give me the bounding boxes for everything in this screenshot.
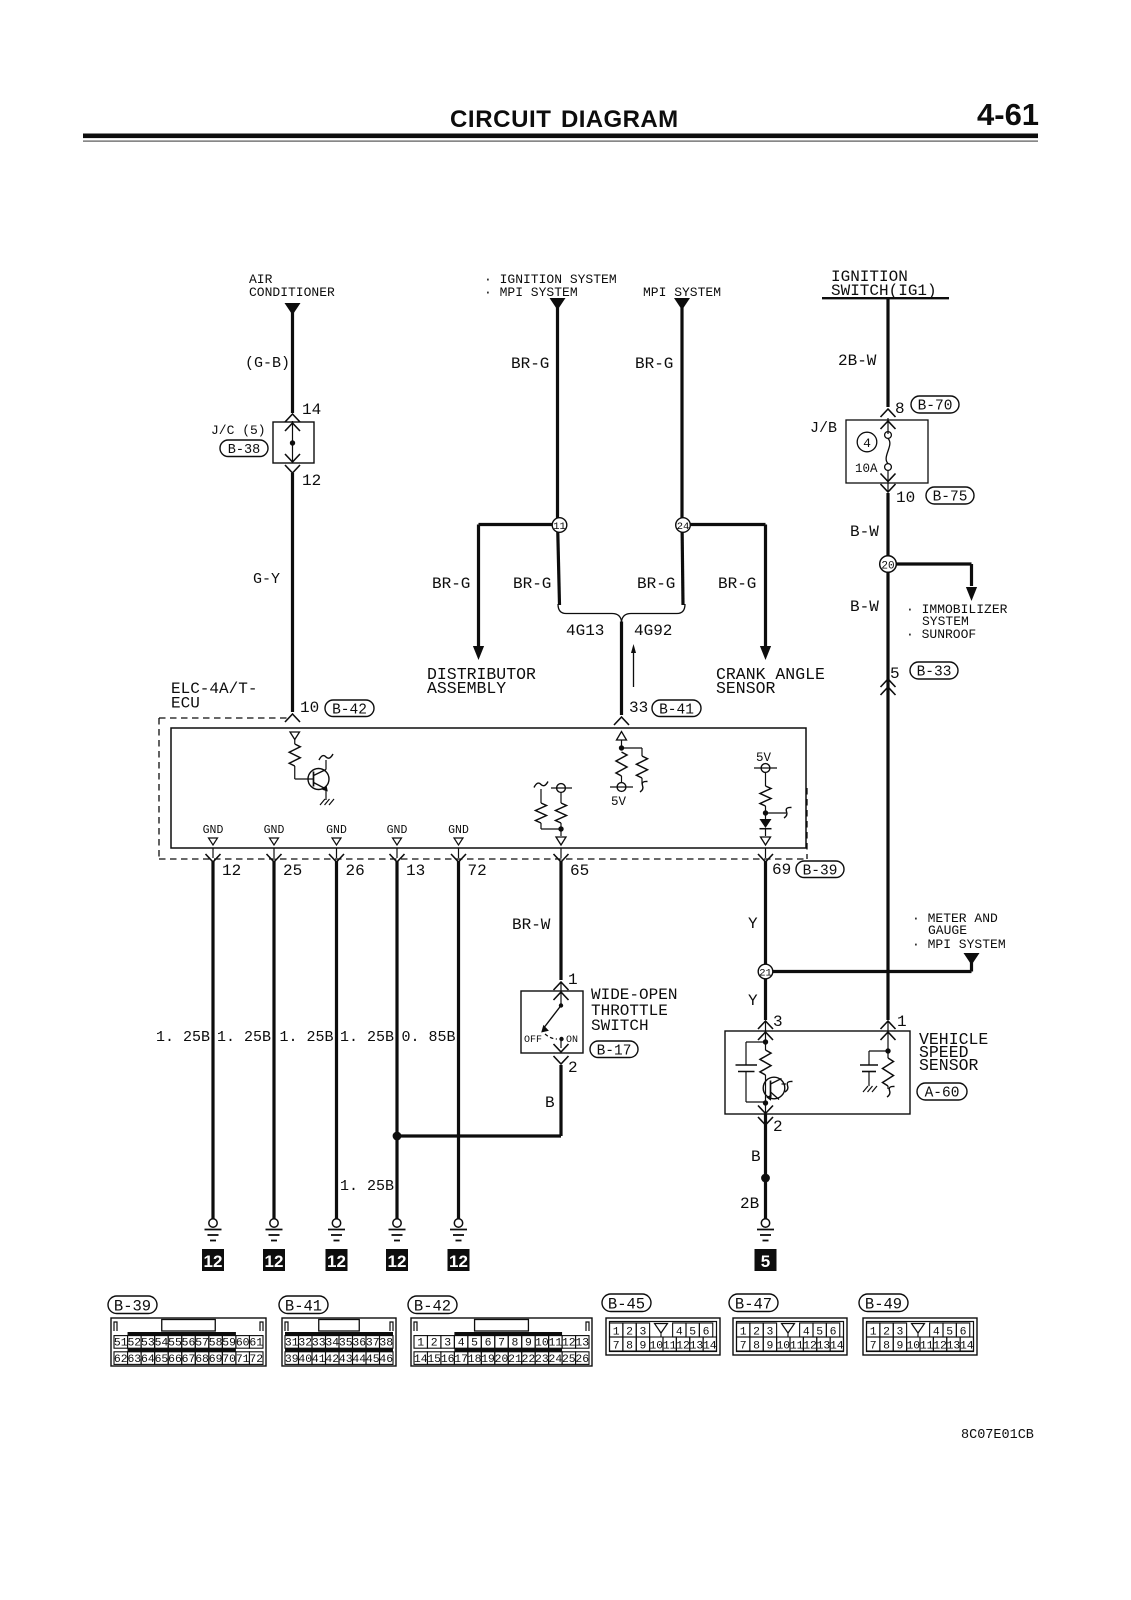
svg-text:65: 65: [155, 1354, 169, 1366]
connector B-47 pinout: [729, 1294, 778, 1312]
connector B-42 pinout: [408, 1296, 457, 1314]
svg-text:10: 10: [535, 1338, 549, 1350]
svg-text:39: 39: [285, 1354, 299, 1366]
svg-text:B: B: [751, 1148, 761, 1166]
svg-text:45: 45: [366, 1354, 380, 1366]
svg-text:26: 26: [575, 1354, 589, 1366]
VSS pin1 entry: [887, 1021, 889, 1051]
svg-text:CIRCUIT: CIRCUIT: [450, 106, 552, 133]
svg-text:BR-G: BR-G: [635, 355, 673, 373]
svg-text:7: 7: [613, 1341, 620, 1353]
svg-text:22: 22: [522, 1354, 536, 1366]
svg-text:69: 69: [772, 861, 791, 879]
svg-text:21: 21: [508, 1354, 522, 1366]
wire G-Y to ECU pin 10: [291, 473, 294, 712]
svg-text:3: 3: [773, 1013, 783, 1031]
svg-text:1. 25B: 1. 25B: [340, 1178, 394, 1195]
svg-text:40: 40: [298, 1354, 312, 1366]
svg-text:60: 60: [236, 1338, 250, 1350]
svg-text:2: 2: [568, 1059, 578, 1077]
svg-text:4G92: 4G92: [634, 622, 672, 640]
pin 2 of vehicle speed sensor: [758, 1117, 773, 1125]
svg-text:B-41: B-41: [659, 702, 694, 718]
resistor R1: [289, 744, 300, 766]
svg-text:3: 3: [444, 1338, 451, 1350]
svg-text:1: 1: [417, 1338, 424, 1350]
svg-text:11: 11: [663, 1341, 677, 1353]
svg-text:6: 6: [485, 1338, 492, 1350]
ground point 12: [448, 1249, 470, 1271]
svg-text:12: 12: [327, 1252, 346, 1271]
svg-text:BR-W: BR-W: [512, 916, 551, 934]
svg-text:44: 44: [352, 1354, 366, 1366]
svg-text:12: 12: [803, 1341, 817, 1353]
svg-text:B-42: B-42: [414, 1297, 451, 1315]
wire 1.25B from pin 25 to ground: [272, 861, 275, 1219]
svg-text:GND: GND: [387, 824, 408, 837]
resistor R3: [637, 756, 648, 778]
svg-text:B-W: B-W: [850, 598, 879, 616]
svg-text:2B-W: 2B-W: [838, 352, 877, 370]
svg-text:10: 10: [649, 1341, 663, 1353]
svg-text:21: 21: [759, 968, 772, 980]
svg-text:8: 8: [626, 1341, 633, 1353]
svg-text:72: 72: [468, 862, 487, 880]
svg-text:B-39: B-39: [114, 1297, 151, 1315]
svg-text:13: 13: [817, 1341, 831, 1353]
svg-text:5V: 5V: [611, 795, 627, 809]
svg-text:A-60: A-60: [925, 1086, 960, 1102]
fuse 4 10A: [887, 418, 889, 434]
svg-text:71: 71: [236, 1354, 250, 1366]
wire BR-W from pin 65: [559, 861, 562, 980]
svg-text:· MPI SYSTEM: · MPI SYSTEM: [912, 937, 1006, 952]
svg-text:G-Y: G-Y: [253, 571, 280, 588]
node VSS-3: [763, 1039, 768, 1044]
ECU output terminal pin 69: [761, 837, 771, 845]
svg-text:53: 53: [141, 1338, 155, 1350]
svg-text:1. 25B: 1. 25B: [340, 1029, 394, 1046]
direction arrow: [633, 651, 635, 687]
pin 12 out of J/C(5): [285, 454, 300, 462]
svg-text:BR-G: BR-G: [511, 355, 549, 373]
node pin69: [763, 810, 768, 815]
ECU pin 25: [273, 848, 275, 858]
ECU input terminal pin 10: [290, 732, 300, 740]
svg-text:35: 35: [339, 1338, 353, 1350]
VSS pin2 exit: [765, 1103, 767, 1113]
junction node 2B: [761, 1174, 770, 1183]
svg-text:19: 19: [481, 1354, 495, 1366]
wire BR-G from ignition system: [556, 298, 559, 520]
connector B-39 pinout: [108, 1296, 157, 1314]
svg-text:OFF: OFF: [524, 1035, 542, 1046]
wire BR-G from MPI system: [680, 298, 683, 520]
svg-text:13: 13: [690, 1341, 704, 1353]
svg-text:BR-G: BR-G: [637, 575, 675, 593]
svg-text:58: 58: [209, 1338, 223, 1350]
svg-text:0. 85B: 0. 85B: [402, 1029, 456, 1046]
svg-text:69: 69: [209, 1354, 223, 1366]
svg-text:9: 9: [525, 1338, 532, 1350]
connector B-49 pinout: [859, 1294, 908, 1312]
svg-text:10A: 10A: [855, 462, 878, 476]
svg-text:B: B: [545, 1094, 555, 1112]
svg-text:4-61: 4-61: [977, 97, 1039, 132]
svg-text:8C07E01CB: 8C07E01CB: [961, 1428, 1034, 1443]
svg-text:14: 14: [830, 1341, 844, 1353]
svg-text:24: 24: [549, 1354, 563, 1366]
svg-text:5V: 5V: [756, 751, 772, 765]
wire to ECU pin 33: [620, 622, 623, 716]
svg-text:8: 8: [753, 1341, 760, 1353]
svg-text:B-33: B-33: [917, 665, 952, 681]
svg-text:15: 15: [427, 1354, 441, 1366]
ECU input terminal pin 33: [617, 732, 627, 741]
svg-text:42: 42: [325, 1354, 339, 1366]
wire 0.85B from pin 72 to ground: [457, 861, 460, 1219]
svg-text:· MPI SYSTEM: · MPI SYSTEM: [484, 285, 578, 300]
junction block J/B: [846, 420, 928, 483]
node VSS-2: [763, 1100, 768, 1105]
svg-text:5: 5: [471, 1338, 478, 1350]
svg-text:13: 13: [947, 1341, 961, 1353]
svg-text:1. 25B: 1. 25B: [280, 1029, 334, 1046]
svg-text:24: 24: [677, 521, 690, 533]
ground 1: [209, 1219, 217, 1227]
svg-text:10: 10: [300, 699, 319, 717]
node in J/C(5): [290, 440, 295, 445]
svg-text:63: 63: [127, 1354, 141, 1366]
ECU pin 12: [212, 848, 214, 858]
svg-text:20: 20: [881, 561, 894, 573]
wire to immobilizer and sunroof: [970, 564, 973, 586]
svg-text:1: 1: [897, 1013, 907, 1031]
svg-text:23: 23: [535, 1354, 549, 1366]
brace 4G13 / 4G92: [558, 604, 685, 622]
svg-text:8: 8: [512, 1338, 519, 1350]
svg-text:MPI SYSTEM: MPI SYSTEM: [643, 285, 721, 300]
pin 2 of throttle switch: [554, 1056, 569, 1064]
ground 4: [393, 1219, 401, 1227]
svg-text:J/B: J/B: [810, 420, 837, 437]
svg-text:10: 10: [896, 489, 915, 507]
ECU box: [171, 728, 806, 848]
pin 1 of throttle switch: [554, 982, 569, 990]
transistor Q2: [763, 1077, 785, 1099]
svg-text:1: 1: [568, 971, 578, 989]
svg-text:ASSEMBLY: ASSEMBLY: [427, 679, 506, 698]
node pin65: [558, 826, 563, 831]
svg-text:12: 12: [676, 1341, 690, 1353]
svg-text:34: 34: [325, 1338, 339, 1350]
svg-text:31: 31: [285, 1338, 299, 1350]
ECU pin 72: [458, 848, 460, 858]
wide-open throttle switch B-17: [521, 991, 583, 1053]
svg-text:62: 62: [114, 1354, 128, 1366]
svg-text:38: 38: [379, 1338, 393, 1350]
svg-text:7: 7: [870, 1341, 877, 1353]
node VSS-1: [885, 1048, 890, 1053]
ground point 12: [263, 1249, 285, 1271]
node 21 branch wire: [970, 953, 973, 972]
svg-text:52: 52: [127, 1338, 141, 1350]
resistor R6: [760, 786, 771, 806]
svg-text:(G-B): (G-B): [245, 355, 290, 372]
svg-text:64: 64: [141, 1354, 155, 1366]
svg-text:4: 4: [863, 436, 871, 451]
svg-text:51: 51: [114, 1338, 128, 1350]
svg-text:B-70: B-70: [918, 399, 953, 415]
ground 5: [454, 1219, 462, 1227]
ECU output terminal pin 65: [556, 837, 566, 845]
svg-text:12: 12: [933, 1341, 947, 1353]
svg-text:CONDITIONER: CONDITIONER: [249, 285, 335, 300]
svg-text:66: 66: [168, 1354, 182, 1366]
header rule: [83, 134, 1038, 139]
svg-text:67: 67: [182, 1354, 196, 1366]
ECU pin 10 connector B-42: [285, 714, 300, 722]
wire (G-B) from air conditioner: [291, 303, 294, 413]
resistor R2: [616, 752, 627, 776]
svg-text:26: 26: [346, 862, 365, 880]
ECU pin 33 connector B-41: [614, 717, 629, 725]
svg-text:14: 14: [414, 1354, 428, 1366]
svg-text:B-41: B-41: [285, 1297, 322, 1315]
connector B-41 pinout: [279, 1296, 328, 1314]
svg-text:B-42: B-42: [332, 702, 367, 718]
svg-text:54: 54: [155, 1338, 169, 1350]
pin 8 connector B-70: [881, 409, 896, 417]
ECU pin 69 connector B-39: [765, 848, 767, 858]
svg-text:B-17: B-17: [597, 1043, 632, 1059]
svg-text:SENSOR: SENSOR: [716, 679, 776, 698]
wire 1.25B from pin 12 to ground: [211, 861, 214, 1219]
ground point 12: [386, 1249, 408, 1271]
svg-text:GND: GND: [264, 824, 285, 837]
svg-text:56: 56: [182, 1338, 196, 1350]
svg-text:59: 59: [222, 1338, 236, 1350]
svg-text:12: 12: [265, 1252, 284, 1271]
svg-text:17: 17: [454, 1354, 468, 1366]
svg-text:57: 57: [195, 1338, 209, 1350]
svg-text:B-75: B-75: [933, 490, 968, 506]
transistor Q1: [308, 769, 329, 790]
svg-text:5: 5: [761, 1252, 770, 1271]
svg-text:SWITCH: SWITCH: [591, 1017, 649, 1035]
svg-text:36: 36: [352, 1338, 366, 1350]
ground of Q1 emitter: [325, 789, 327, 800]
wire 1.25B from pin 26 to ground: [335, 861, 338, 1219]
capacitor C2: [869, 1050, 888, 1052]
svg-text:9: 9: [767, 1341, 774, 1353]
5V terminal of R2: [621, 776, 623, 782]
svg-text:65: 65: [570, 862, 589, 880]
svg-text:1. 25B: 1. 25B: [156, 1029, 210, 1046]
svg-text:4: 4: [458, 1338, 465, 1350]
continuation of R3: [641, 778, 643, 784]
VSS pin3 entry: [765, 1021, 767, 1050]
svg-text:41: 41: [312, 1354, 326, 1366]
svg-text:Y: Y: [748, 915, 758, 933]
svg-text:14: 14: [960, 1341, 974, 1353]
resistor R4: [536, 803, 547, 823]
svg-text:B-47: B-47: [735, 1295, 772, 1313]
svg-text:GND: GND: [203, 824, 224, 837]
svg-text:2: 2: [431, 1338, 438, 1350]
svg-text:B-49: B-49: [865, 1295, 902, 1313]
wire 2B-W from ignition switch: [886, 298, 889, 407]
svg-text:13: 13: [575, 1338, 589, 1350]
svg-text:43: 43: [339, 1354, 353, 1366]
svg-text:B-45: B-45: [608, 1295, 645, 1313]
svg-text:GND: GND: [448, 824, 469, 837]
junction connector J/C(5) B-38: [273, 422, 314, 463]
svg-text:B-39: B-39: [803, 863, 838, 879]
svg-text:12: 12: [222, 862, 241, 880]
wire BR-G to crank angle sensor: [764, 525, 767, 648]
ECU pin 13: [396, 848, 398, 858]
svg-text:33: 33: [629, 699, 648, 717]
svg-text:61: 61: [249, 1338, 263, 1350]
svg-text:BR-G: BR-G: [432, 575, 470, 593]
svg-text:B-W: B-W: [850, 523, 879, 541]
wire B from vehicle speed sensor: [764, 1114, 767, 1219]
svg-text:25: 25: [283, 862, 302, 880]
junction circle 24: [682, 520, 683, 605]
svg-text:12: 12: [302, 472, 321, 490]
svg-text:12: 12: [562, 1338, 576, 1350]
wire B from throttle switch: [559, 1065, 562, 1136]
svg-text:18: 18: [468, 1354, 482, 1366]
wire B-W ignition feed: [886, 493, 889, 1020]
svg-text:7: 7: [740, 1341, 747, 1353]
svg-text:14: 14: [302, 401, 321, 419]
ground 3: [332, 1219, 340, 1227]
svg-text:GND: GND: [326, 824, 347, 837]
svg-text:BR-G: BR-G: [718, 575, 756, 593]
svg-text:11: 11: [549, 1338, 563, 1350]
pin 1 of vehicle speed sensor: [881, 1021, 896, 1029]
svg-text:· SUNROOF: · SUNROOF: [906, 627, 976, 642]
svg-text:J/C (5): J/C (5): [211, 423, 266, 438]
svg-text:32: 32: [298, 1338, 312, 1350]
svg-text:12: 12: [204, 1252, 223, 1271]
svg-text:46: 46: [379, 1354, 393, 1366]
junction circle 11: [558, 520, 560, 605]
svg-text:11: 11: [920, 1341, 934, 1353]
svg-text:68: 68: [195, 1354, 209, 1366]
svg-text:10: 10: [906, 1341, 920, 1353]
svg-text:8: 8: [883, 1341, 890, 1353]
svg-text:16: 16: [441, 1354, 455, 1366]
node pin33 divider: [619, 745, 624, 750]
wire Y from ECU pin 69: [764, 861, 767, 1020]
svg-text:2: 2: [773, 1118, 783, 1136]
wire BR-G to distributor: [477, 525, 480, 648]
svg-text:5: 5: [890, 665, 900, 683]
vehicle speed sensor box A-60: [725, 1031, 910, 1114]
node 20: [888, 562, 972, 565]
svg-text:11: 11: [790, 1341, 804, 1353]
svg-text:55: 55: [168, 1338, 182, 1350]
pin 3 of vehicle speed sensor: [758, 1021, 773, 1029]
pin 10 connector B-75: [881, 474, 896, 482]
svg-text:7: 7: [498, 1338, 505, 1350]
svg-text:SENSOR: SENSOR: [919, 1056, 979, 1075]
svg-text:4G13: 4G13: [566, 622, 604, 640]
svg-text:14: 14: [703, 1341, 717, 1353]
svg-text:9: 9: [897, 1341, 904, 1353]
svg-text:DIAGRAM: DIAGRAM: [561, 106, 678, 133]
node 11: [479, 523, 560, 526]
svg-text:11: 11: [553, 521, 566, 533]
svg-text:8: 8: [895, 400, 905, 418]
svg-text:33: 33: [312, 1338, 326, 1350]
capacitor C1: [746, 1041, 766, 1043]
svg-text:ECU: ECU: [171, 695, 200, 713]
node 24: [683, 523, 766, 526]
svg-text:72: 72: [249, 1354, 263, 1366]
svg-text:37: 37: [366, 1338, 380, 1350]
svg-text:9: 9: [640, 1341, 647, 1353]
svg-text:70: 70: [222, 1354, 236, 1366]
ground point 12: [326, 1249, 348, 1271]
junction circle 21: [758, 964, 773, 979]
svg-text:10: 10: [776, 1341, 790, 1353]
svg-text:GAUGE: GAUGE: [928, 923, 967, 938]
ECU pin 26: [336, 848, 338, 858]
ECU dashed connector boundary: [159, 717, 290, 719]
svg-text:BR-G: BR-G: [513, 575, 551, 593]
diode D1: [760, 819, 772, 828]
svg-text:B-38: B-38: [228, 443, 260, 458]
pin 14 into J/C(5): [285, 414, 300, 422]
svg-text:2B: 2B: [740, 1195, 759, 1213]
svg-text:12: 12: [388, 1252, 407, 1271]
5V terminal of R5: [557, 784, 566, 793]
svg-text:12: 12: [449, 1252, 468, 1271]
resistor R8: [887, 1051, 889, 1058]
ground point 5: [755, 1249, 777, 1271]
ground 6: [761, 1219, 769, 1227]
svg-text:25: 25: [562, 1354, 576, 1366]
connector B-45 pinout: [602, 1294, 651, 1312]
svg-text:20: 20: [495, 1354, 509, 1366]
svg-text:1. 25B: 1. 25B: [217, 1029, 271, 1046]
svg-text:Y: Y: [748, 992, 758, 1010]
ground 2: [270, 1219, 278, 1227]
junction node on pin 13 wire: [393, 1132, 402, 1141]
pull-up network on pin 65: [534, 782, 548, 788]
wire 1.25B from pin 13 to ground: [395, 861, 398, 1219]
svg-text:13: 13: [406, 862, 425, 880]
ECU pin 65: [560, 848, 562, 858]
ground point 12: [202, 1249, 224, 1271]
resistor R5: [560, 792, 562, 803]
resistor R7: [760, 1050, 771, 1075]
